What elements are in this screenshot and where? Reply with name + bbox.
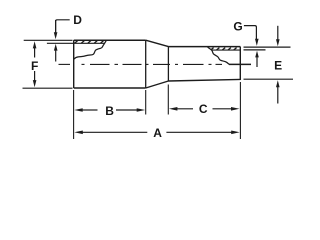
extension line bottom right (for C and A) [239, 82, 241, 139]
dimension G up arrow [255, 51, 259, 58]
svg-text:B: B [105, 104, 114, 118]
svg-text:G: G [233, 20, 242, 34]
dimension E up arrow [276, 80, 280, 87]
wire taper top slope [146, 40, 169, 46]
svg-text:C: C [199, 102, 208, 116]
extension line bottom at taper large end (for B) [145, 90, 147, 115]
svg-text:D: D [73, 13, 82, 27]
extension line E bottom right [244, 78, 294, 80]
break line large end [74, 40, 107, 59]
extension line G inner top right [244, 49, 266, 51]
extension line bottom at taper small end (for C) [167, 85, 169, 115]
dimension F line bottom arrow [33, 80, 37, 87]
wire small pipe right edge [239, 47, 241, 80]
break line small end down to centerline [208, 47, 230, 64]
dimension E down arrow [276, 39, 280, 46]
extension line bottom left (for B and A) [73, 90, 75, 139]
hatching large end section [75, 41, 104, 44]
dimension C line with arrows [169, 107, 178, 111]
centerline (dash-dot axis) [59, 63, 252, 65]
wire small pipe outer top [168, 46, 240, 48]
wire taper bottom slope [146, 81, 169, 88]
dimension A line with arrows [74, 131, 83, 135]
dimension D leader [56, 20, 70, 33]
hatching small end section [211, 48, 237, 50]
wire large pipe inner-top (section) line [47, 42, 105, 44]
dimension D down arrow [54, 32, 58, 39]
wire large pipe outer bottom [74, 87, 146, 89]
extension line F top (left outer) [24, 39, 73, 41]
extension line G/E outer top right [244, 46, 291, 48]
wire taper junction vertical at small end [167, 47, 169, 81]
dimension F line top arrow [33, 41, 37, 48]
dimension D up arrow [54, 44, 58, 51]
svg-text:F: F [31, 59, 38, 73]
svg-text:E: E [274, 58, 282, 72]
svg-text:A: A [153, 126, 162, 140]
wire large pipe left edge [73, 40, 75, 88]
extension line F bottom (left outer bottom) [23, 87, 73, 89]
wire small pipe inner-top (section) line [212, 49, 240, 51]
wire taper junction vertical at large end [145, 40, 147, 88]
dimension G leader [244, 26, 257, 39]
wire small pipe outer bottom [168, 79, 240, 81]
dimension B line with arrows [74, 108, 83, 112]
wire large pipe outer top [74, 39, 146, 41]
dimension G down arrow [255, 39, 259, 46]
